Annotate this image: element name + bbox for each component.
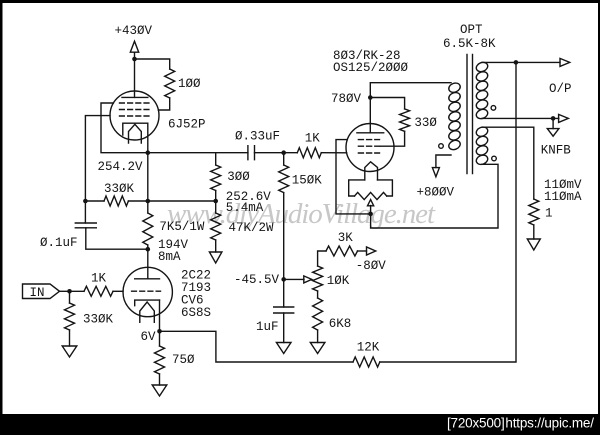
tube U1 cathode xyxy=(123,123,148,135)
svg-text:7K5/1W: 7K5/1W xyxy=(159,220,205,234)
node x148 y201 xyxy=(146,199,151,204)
svg-text:6.5K-8K: 6.5K-8K xyxy=(443,37,496,51)
resistor R8 150K xyxy=(279,165,289,193)
svg-text:+8ØØV: +8ØØV xyxy=(417,185,455,199)
node +430V junction xyxy=(132,57,137,62)
label +430V xyxy=(115,24,153,38)
label IN xyxy=(30,286,45,300)
label 194V xyxy=(158,238,189,252)
node O/P feedback tap xyxy=(514,60,519,65)
wire rail to C2 xyxy=(148,152,248,154)
ground under R6 xyxy=(209,252,222,263)
svg-text:75Ø: 75Ø xyxy=(172,353,195,367)
wire 780V node to R15 xyxy=(370,98,404,109)
label 1K (R9) xyxy=(91,271,107,285)
node -45.5V xyxy=(281,277,286,282)
node U1 cathode xyxy=(146,150,151,155)
wire node to R2 xyxy=(135,59,170,69)
hum balance wiper arrow xyxy=(368,200,374,214)
wire secondary top to O/P xyxy=(482,61,560,63)
wire U1 cathode lead xyxy=(147,123,149,153)
resistor R6 47K/2W xyxy=(211,213,221,240)
arrow -80V xyxy=(367,247,376,255)
filament wings U3 xyxy=(349,180,393,196)
wire node to pot wiper xyxy=(284,278,304,280)
tube U2 grid xyxy=(132,290,161,292)
label 780V xyxy=(331,92,362,106)
svg-text:11ØmA: 11ØmA xyxy=(544,190,582,204)
arrow O/P xyxy=(560,58,570,66)
label 252.6V xyxy=(226,190,272,204)
wire C3 to ground xyxy=(283,313,285,343)
tube U3 grid g1 xyxy=(358,152,379,154)
wire R10 to ground xyxy=(69,330,71,346)
OPT secondary lower phase dot xyxy=(492,156,497,161)
resistor R17 12K feedback xyxy=(353,357,380,367)
svg-text:Ø.33uF: Ø.33uF xyxy=(235,129,280,143)
svg-text:IN: IN xyxy=(30,286,45,300)
OPT primary phase dot xyxy=(439,144,444,149)
arrow +800V xyxy=(432,168,439,177)
resistor R7 1K grid stopper xyxy=(297,148,321,158)
wire g1 to grid network xyxy=(85,116,110,201)
resistor R3 330K xyxy=(104,196,128,206)
wire 3K corner xyxy=(318,251,326,266)
svg-text:6S8S: 6S8S xyxy=(181,306,211,320)
resistor R11 750 xyxy=(155,346,165,374)
node KNFB xyxy=(551,116,556,121)
label 7193 xyxy=(181,281,211,295)
node C2 right xyxy=(281,150,286,155)
tube U3 grid g2 xyxy=(358,145,379,147)
label 6J52P xyxy=(168,117,206,131)
wire R6 to ground xyxy=(215,240,217,252)
wire node to R10 xyxy=(69,291,71,303)
wire node to plate of U1 xyxy=(134,59,136,97)
label OPT xyxy=(460,23,483,37)
wire C2 to R7 xyxy=(255,152,298,154)
label 0.33uF xyxy=(235,129,280,143)
svg-text:8mA: 8mA xyxy=(158,250,181,264)
ground under R10 xyxy=(62,346,77,357)
wire R11 to ground xyxy=(159,374,161,385)
wire R15 to g2 xyxy=(380,131,405,146)
label -80V xyxy=(356,259,387,273)
svg-text:-45.5V: -45.5V xyxy=(234,273,280,287)
wire node to R6 xyxy=(215,201,217,213)
wire primary bottom to +800V xyxy=(436,155,451,168)
label 110mV xyxy=(544,178,582,192)
tube U1 plate xyxy=(122,96,148,98)
resistor R9 1K input xyxy=(84,286,113,296)
svg-text:6V: 6V xyxy=(141,330,157,344)
svg-text:15ØK: 15ØK xyxy=(292,173,323,187)
capacitor C2 0.33uF xyxy=(248,146,255,160)
wire 194V node to U2 plate xyxy=(147,249,149,279)
wire 12K to O/P node xyxy=(380,62,516,362)
hum balance pot xyxy=(355,192,387,199)
wire 3K to -80V arrow xyxy=(358,250,367,252)
resistor R5 300 xyxy=(211,165,221,191)
svg-text:1: 1 xyxy=(545,206,553,220)
wire node to R3 xyxy=(85,200,104,202)
wire U2 cathode lead xyxy=(159,300,161,331)
wire R7 to U3 grid xyxy=(321,152,346,154)
wire U3 plate to OPT xyxy=(370,83,451,133)
svg-text:6J52P: 6J52P xyxy=(168,117,206,131)
tube U1 grid g3 xyxy=(120,102,150,104)
wire C1 to 194V node xyxy=(86,228,148,249)
label 8mA xyxy=(158,250,181,264)
tube U1 grid g2 xyxy=(120,109,150,111)
node filament CT xyxy=(368,212,373,217)
label +800V xyxy=(417,185,455,199)
OPT secondary winding upper xyxy=(475,61,489,121)
svg-text:78ØV: 78ØV xyxy=(331,92,362,106)
resistor R2 100 xyxy=(165,69,175,98)
wire R16 to ground xyxy=(533,225,535,239)
arrow KNFB xyxy=(559,114,569,122)
OPT secondary upper phase dot xyxy=(491,106,496,111)
label 6K8 xyxy=(329,317,352,331)
svg-text:33ØK: 33ØK xyxy=(83,312,114,326)
wire R2 to screen grid xyxy=(158,98,169,110)
label 47K/2W xyxy=(229,221,275,235)
wire rail to R8 xyxy=(283,153,285,165)
label 100 xyxy=(178,77,201,91)
wire cathode to feedback rail xyxy=(160,331,354,362)
wire filament CT to secondary return xyxy=(371,164,498,228)
svg-text:O/P: O/P xyxy=(549,82,572,96)
wire KNFB stub xyxy=(552,118,554,128)
svg-text:3K: 3K xyxy=(338,231,354,245)
wire R14 to ground xyxy=(317,330,319,343)
label 1 (R16) xyxy=(545,206,553,220)
ground under C3 xyxy=(276,343,291,354)
label 300 xyxy=(227,170,250,184)
svg-text:www.diyAudioVillage.net: www.diyAudioVillage.net xyxy=(167,198,436,230)
tube U2 cathode xyxy=(135,300,160,306)
node grid bias xyxy=(83,199,88,204)
label 750 xyxy=(172,353,195,367)
tube U2 2C22 envelope xyxy=(123,267,172,316)
svg-text:254.2V: 254.2V xyxy=(98,160,144,174)
ground under R11 xyxy=(152,385,167,396)
wire node to C3 xyxy=(283,279,285,307)
ground under R16 xyxy=(527,239,540,250)
wire R9 to U2 grid xyxy=(113,290,123,292)
wire pot to R14 xyxy=(317,291,319,298)
wire rail to R5 xyxy=(215,153,217,165)
power arrow +430V xyxy=(130,41,138,52)
node U2 cathode 6V xyxy=(157,329,162,334)
wire R8 to -45.5V node xyxy=(283,193,285,280)
label 6V xyxy=(141,330,157,344)
svg-text:OS125/2ØØØ: OS125/2ØØØ xyxy=(333,61,409,75)
label O/P xyxy=(549,82,572,96)
potentiometer R13 10K xyxy=(313,266,323,291)
svg-text:[720x500] https://upic.me/: [720x500] https://upic.me/ xyxy=(447,416,594,431)
svg-text:1ØK: 1ØK xyxy=(327,274,350,288)
label 10K xyxy=(327,274,350,288)
capacitor C1 0.1uF xyxy=(75,223,96,228)
capacitor C3 1uF xyxy=(274,307,294,313)
wire +430V to node xyxy=(134,52,136,59)
tube U2 heater xyxy=(140,302,155,322)
tube U1 grid g1 xyxy=(120,115,150,117)
label 2C22 xyxy=(181,268,211,282)
wire secondary mid to KNFB xyxy=(482,117,559,119)
label 0.1uF xyxy=(40,236,78,250)
label OS125/2000 xyxy=(333,61,409,75)
node 194V xyxy=(146,247,151,252)
svg-text:KNFB: KNFB xyxy=(541,143,572,157)
caption bar text xyxy=(447,416,594,431)
label 803/RK-28 xyxy=(333,49,401,63)
tube U2 plate xyxy=(135,278,160,280)
wire g3 to filament node xyxy=(336,140,371,214)
label 12K xyxy=(357,340,380,354)
tube U3 803 envelope xyxy=(346,124,394,172)
node input xyxy=(67,289,72,294)
wire IN to node xyxy=(60,290,70,292)
label KNFB xyxy=(541,143,572,157)
OPT primary winding xyxy=(447,81,461,151)
svg-text:1K: 1K xyxy=(305,131,321,145)
wire cathode to R11 xyxy=(159,331,161,346)
wire secondary lower top to R16 xyxy=(482,127,534,199)
label 6S8S xyxy=(181,306,211,320)
input tag IN xyxy=(23,284,60,299)
resistor R10 330K input xyxy=(65,303,75,330)
label 1K (R7) xyxy=(305,131,321,145)
label -45.5V xyxy=(234,273,280,287)
wire g3 to cathode rail xyxy=(101,103,148,153)
tube U3 grid g3 xyxy=(358,139,379,141)
resistor R14 6K8 xyxy=(313,298,323,330)
KNFB down arrow xyxy=(547,129,559,137)
label 330K (R3) xyxy=(104,182,135,196)
OPT secondary winding lower xyxy=(475,125,489,166)
wire R5 to node xyxy=(215,191,217,202)
wire R4 to 194V node xyxy=(147,245,149,249)
svg-text:1uF: 1uF xyxy=(256,320,279,334)
OPT core xyxy=(467,55,473,174)
resistor R12 3K xyxy=(326,246,358,256)
label 3K xyxy=(338,231,354,245)
svg-text:33ØK: 33ØK xyxy=(104,182,135,196)
tube U3 plate xyxy=(357,132,384,134)
wire node to R9 xyxy=(70,290,85,292)
label 6.5K-8K xyxy=(443,37,496,51)
wire R3 to plate node xyxy=(128,200,215,202)
svg-text:1ØØ: 1ØØ xyxy=(178,77,201,91)
tube U3 filament xyxy=(365,162,378,180)
svg-text:1K: 1K xyxy=(91,271,107,285)
svg-text:+43ØV: +43ØV xyxy=(115,24,153,38)
label 254.2V xyxy=(98,160,144,174)
wire rail to R4 xyxy=(147,153,149,213)
label CV6 xyxy=(181,293,204,307)
node x216 y201 xyxy=(213,199,218,204)
svg-text:OPT: OPT xyxy=(460,23,483,37)
svg-text:33Ø: 33Ø xyxy=(414,116,437,130)
ground under R14 xyxy=(310,343,325,354)
resistor R4 7K5/1W xyxy=(143,213,153,245)
label 110mA xyxy=(544,190,582,204)
label 150K xyxy=(292,173,323,187)
node 780V xyxy=(368,95,373,100)
wire node to C1 xyxy=(84,201,86,223)
svg-text:3ØØ: 3ØØ xyxy=(227,170,250,184)
label 7K5/1W xyxy=(159,220,205,234)
svg-text:-8ØV: -8ØV xyxy=(356,259,387,273)
label 1uF xyxy=(256,320,279,334)
svg-text:47K/2W: 47K/2W xyxy=(229,221,275,235)
tube U1 heater xyxy=(129,124,142,143)
resistor R15 330 xyxy=(400,109,410,131)
watermark www.diyAudioVillage.net xyxy=(167,198,436,230)
svg-text:Ø.1uF: Ø.1uF xyxy=(40,236,78,250)
label 330K (R10) xyxy=(83,312,114,326)
label 5.4mA xyxy=(226,201,264,215)
resistor R16 1 xyxy=(529,199,539,225)
svg-text:12K: 12K xyxy=(357,340,380,354)
pot wiper arrow xyxy=(304,276,312,283)
tube U1 6J52P envelope xyxy=(110,91,159,140)
svg-text:5.4mA: 5.4mA xyxy=(226,201,264,215)
label 330 (R15) xyxy=(414,116,437,130)
svg-text:6K8: 6K8 xyxy=(329,317,352,331)
